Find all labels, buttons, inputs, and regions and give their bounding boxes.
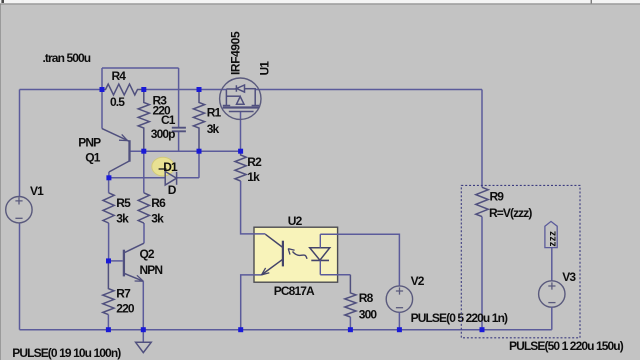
V2 minus (396, 307, 403, 309)
svg-text:D1: D1 (163, 160, 178, 174)
U2 phototransistor emitter diagonal (262, 259, 283, 275)
svg-text:PULSE(0 5 220u 1n): PULSE(0 5 220u 1n) (411, 311, 508, 325)
node junction 6 (238, 149, 243, 154)
svg-text:3k: 3k (207, 122, 220, 136)
svg-text:zzz: zzz (547, 231, 558, 247)
node junction 1 (100, 87, 105, 92)
svg-text:R5: R5 (116, 196, 131, 210)
U1 internal top link (226, 88, 236, 90)
U1 gate bar (223, 90, 230, 106)
wire R5 bottom to base node (108, 223, 110, 261)
toolbar strip (0, 0, 640, 3)
V2 plus (396, 287, 403, 294)
D1 cathode bar (176, 172, 178, 185)
wire R5 top lead (108, 178, 110, 193)
node junction 9 (106, 327, 111, 332)
wire base rail y151 (130, 150, 241, 152)
svg-text:300: 300 (359, 308, 378, 322)
U2 LED triangle (310, 248, 330, 261)
wire U2 emitter to rail (241, 275, 262, 330)
Q1 emitter diagonal (102, 129, 129, 142)
svg-text:V3: V3 (562, 270, 576, 284)
wire U2 cathode out to R8 (320, 274, 350, 276)
svg-text:V2: V2 (411, 274, 425, 288)
wire node2 to U1 gate (144, 89, 227, 91)
svg-text:NPN: NPN (140, 263, 163, 277)
wire D1 cathode to corner (177, 177, 199, 179)
wire V1 top (19, 90, 21, 197)
U2 phototransistor bar (282, 241, 284, 267)
svg-text:300p: 300p (151, 127, 175, 141)
node junction 13 (397, 327, 402, 332)
U1 right bar (252, 88, 260, 106)
wire flag to V3 (551, 248, 553, 281)
V1 plus (15, 197, 22, 204)
wire feedback loop left (101, 68, 103, 90)
node junction 7 (106, 175, 111, 180)
node junction 3 (197, 87, 202, 92)
svg-text:IRF4905: IRF4905 (229, 31, 243, 75)
svg-text:C1: C1 (161, 113, 176, 127)
svg-text:V1: V1 (30, 184, 44, 198)
U1 gate arrow (237, 97, 245, 105)
resistor R8 (345, 275, 356, 317)
wire loop right down to C1 (178, 68, 180, 127)
Q2 base lead (109, 260, 123, 262)
Q1 collector diagonal (109, 161, 130, 172)
wire Q1 collector vertical (108, 172, 110, 178)
diode D1 (165, 171, 176, 185)
svg-text:R=V(zzz): R=V(zzz) (489, 206, 532, 220)
U2 emitter arrow (262, 268, 270, 275)
svg-text:PULSE(0 19 10u 100n): PULSE(0 19 10u 100n) (12, 346, 121, 360)
wire U2 anode out to V2 (320, 234, 399, 286)
transistor Q2 NPN base bar (123, 250, 125, 277)
Q2 emitter diagonal (125, 274, 144, 282)
source V1 circle (6, 197, 32, 223)
node junction 14 (480, 327, 485, 332)
svg-text:PULSE(50 1 220u 150u): PULSE(50 1 220u 150u) (509, 339, 624, 353)
wire U2 LED cathode lead (319, 260, 321, 274)
V1 minus (15, 217, 22, 219)
svg-text:Q2: Q2 (140, 247, 155, 261)
wire V1 bottom (19, 223, 21, 330)
wire collector rail y178 left (109, 177, 165, 179)
svg-text:220: 220 (116, 302, 135, 316)
V3 plus (548, 282, 555, 289)
svg-text:PNP: PNP (78, 135, 101, 149)
Q2 collector diagonal (125, 243, 145, 252)
toolbar divider right (591, 0, 592, 3)
source V3 circle (539, 281, 565, 307)
wire U1 source to right corner (255, 89, 482, 91)
resistor R4 (102, 84, 144, 95)
svg-text:PC817A: PC817A (274, 284, 315, 298)
node junction 4 (141, 149, 146, 154)
op U1 MOSFET circle (220, 78, 261, 119)
U1 body diode (236, 85, 244, 92)
svg-text:Q1: Q1 (85, 151, 100, 165)
wire top rail left segment (20, 89, 103, 91)
wire V3 bottom (551, 307, 553, 330)
resistor R9 (476, 187, 488, 216)
Q2 emitter arrow (135, 275, 144, 281)
wire feedback loop top (102, 67, 179, 69)
resistor R1 (193, 90, 204, 152)
svg-text:R8: R8 (359, 291, 374, 305)
wire Q2 emitter to rail (142, 281, 144, 330)
svg-text:R9: R9 (490, 190, 505, 204)
node junction 2 (141, 87, 146, 92)
dashed selection box (461, 185, 580, 337)
wire Q1 emitter vertical (101, 90, 103, 129)
wire right vertical to R9 (481, 90, 483, 188)
svg-text:3k: 3k (151, 211, 164, 225)
node junction 12 (348, 327, 353, 332)
Q1 emitter arrow (119, 134, 128, 140)
ground stub (142, 330, 144, 343)
wire base node down to R6 (143, 151, 145, 193)
wire R7 bottom lead (107, 315, 109, 330)
svg-text:R7: R7 (116, 287, 131, 301)
wire U2 LED anode lead (319, 234, 321, 248)
net flag zzz (545, 221, 557, 247)
transistor Q1 PNP base bar (128, 140, 130, 162)
resistor R7 (103, 261, 114, 315)
capacitor C1 (172, 128, 186, 132)
toolbar icon fragment left (1, 0, 4, 3)
U1 source bar thick (223, 106, 260, 108)
resistor R2 (235, 151, 246, 181)
svg-text:R2: R2 (247, 155, 262, 169)
resistor R5 (103, 193, 114, 223)
svg-text:.tran 500u: .tran 500u (43, 51, 91, 65)
op U2 body box (254, 227, 338, 282)
svg-text:R6: R6 (151, 196, 166, 210)
U1 lower bar (229, 111, 254, 113)
D1 highlight circle (152, 157, 174, 176)
resistor R3 (138, 90, 149, 152)
node junction 11 (238, 327, 243, 332)
svg-text:U2: U2 (288, 214, 303, 228)
svg-text:U1: U1 (257, 61, 271, 76)
node junction 10 (141, 327, 146, 332)
window left edge (0, 5, 1, 360)
wire R9 bottom to rail (481, 217, 483, 330)
resistor R6 (138, 193, 149, 223)
node junction 5 (197, 149, 202, 154)
wire U1 drain (240, 112, 242, 152)
ground (136, 342, 152, 352)
D1 label dash (159, 168, 167, 170)
node junction 8 (106, 258, 111, 263)
U1 internal link right (245, 88, 256, 90)
svg-text:0.5: 0.5 (110, 95, 125, 109)
wire C1 bottom lead (178, 131, 180, 151)
svg-text:R4: R4 (112, 69, 127, 83)
U1 mid line (226, 95, 239, 97)
wire R8 bottom lead (349, 317, 351, 330)
wire ground rail (20, 329, 552, 331)
wire R6 bottom to Q2 collector (143, 223, 145, 243)
wire corner up to node 199,151 (198, 151, 200, 178)
U2 light squiggle arrow (293, 252, 308, 259)
U2 phototransistor collector diagonal (265, 234, 283, 247)
svg-text:3k: 3k (116, 211, 129, 225)
U2 LED cathode bar (311, 259, 329, 261)
source V2 circle (386, 286, 412, 312)
V3 minus (548, 302, 555, 304)
svg-text:1k: 1k (247, 170, 260, 184)
svg-text:D: D (168, 183, 177, 197)
wire V2 bottom (398, 312, 400, 329)
wire R2 bottom to U2 anode pin (241, 181, 266, 234)
svg-text:R1: R1 (207, 105, 222, 119)
